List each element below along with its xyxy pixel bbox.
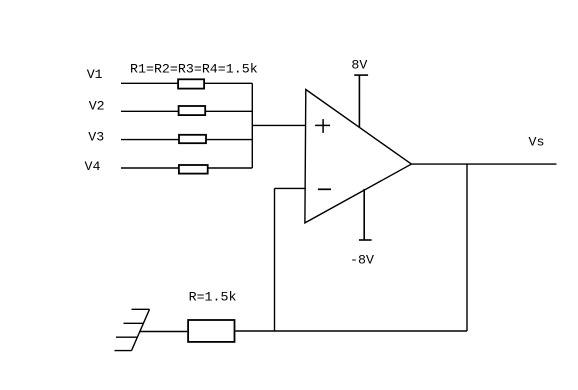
wire feedback bottom — [236, 330, 468, 332]
op-amp U1 — [305, 90, 412, 223]
power +8V supply wire — [354, 75, 368, 127]
svg-text:R=1.5k: R=1.5k — [189, 290, 237, 305]
svg-text:R1=R2=R3=R4=1.5k: R1=R2=R3=R4=1.5k — [130, 62, 258, 77]
wire feedback vertical — [274, 188, 276, 331]
wire output — [411, 163, 556, 165]
wire inverting input — [275, 187, 306, 189]
svg-text:V4: V4 — [85, 159, 101, 174]
resistor R feedback — [188, 320, 234, 342]
resistor R2 — [179, 106, 206, 115]
wire V3 input — [121, 139, 252, 141]
wire to non-inverting input — [252, 124, 306, 126]
svg-text:V3: V3 — [88, 130, 104, 145]
wire summing bus — [251, 83, 253, 168]
svg-text:V1: V1 — [87, 67, 103, 82]
resistor R4 — [179, 165, 208, 174]
ground — [115, 309, 150, 350]
resistor R1 — [178, 79, 204, 88]
wire V4 input — [121, 167, 252, 169]
svg-text:8V: 8V — [351, 58, 367, 73]
svg-text:Vs: Vs — [529, 135, 545, 150]
svg-text:V2: V2 — [89, 99, 105, 114]
wire ground to resistor — [140, 331, 188, 333]
resistor R3 — [179, 135, 206, 143]
power -8V supply wire — [359, 189, 372, 240]
op-amp - input marker — [318, 188, 331, 190]
wire V1 input — [121, 82, 252, 84]
op-amp + input marker — [315, 119, 330, 133]
wire output feedback branch — [466, 164, 468, 331]
svg-text:-8V: -8V — [350, 253, 374, 268]
wire V2 input — [121, 110, 252, 112]
